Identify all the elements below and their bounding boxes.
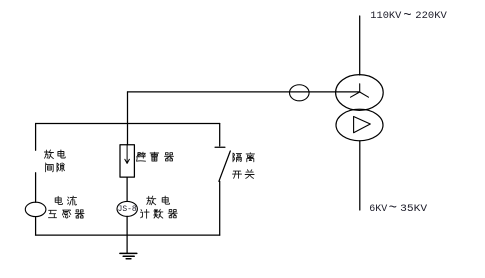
wire: arrester branch riser [127, 92, 129, 145]
disconnect switch: lower wire [219, 181, 221, 235]
label: 110KV~220KV [370, 8, 447, 24]
wire: HV incoming line to transformer primary [359, 16, 361, 75]
svg-text:JS-8: JS-8 [118, 205, 137, 214]
wire: counter to ground [126, 216, 128, 253]
arrester arrow [125, 145, 130, 164]
svg-text:110KV: 110KV [370, 11, 401, 22]
current transformer CT ellipse [25, 202, 46, 216]
disconnect switch: blade [219, 151, 230, 181]
svg-text:~: ~ [389, 201, 397, 217]
svg-text:6KV: 6KV [369, 204, 387, 215]
svg-text:35KV: 35KV [400, 204, 427, 215]
label: 隔离开关 (disconnector) [233, 153, 255, 179]
wire: bottom bus [36, 234, 220, 236]
disconnect switch: upper wire [219, 124, 221, 146]
svg-text:220KV: 220KV [415, 11, 447, 22]
disconnect switch: fixed contact T bar [215, 146, 225, 148]
ground symbol [120, 253, 137, 258]
bushing CT: small ellipse on top bus [290, 85, 310, 101]
discharge counter ellipse [117, 201, 137, 216]
wire: LV outgoing line from transformer secondary [359, 141, 361, 210]
svg-text:~: ~ [403, 8, 411, 24]
wire: inner top bus [36, 123, 220, 125]
wire: left branch upper electrode [35, 124, 37, 151]
wire: top bus from arrester branch to transformer [128, 91, 360, 93]
transformer T1 primary winding (wye) [336, 75, 384, 111]
label: 电流互感器 (current transformer) [49, 196, 85, 218]
wire: left branch below CT [35, 217, 37, 236]
spark gap: break in left branch, lower electrode wire [35, 173, 37, 202]
label: 放电间隙 (discharge gap) [44, 150, 65, 172]
wire: arrester to counter [126, 177, 128, 201]
label: 避雷器 (surge arrester) [137, 152, 174, 161]
arrester body rectangle [120, 145, 134, 177]
transformer T1 secondary winding (delta) [336, 109, 383, 141]
label: 放电计数器 (discharge counter) [141, 196, 178, 218]
label: 6KV~35KV [369, 201, 427, 217]
